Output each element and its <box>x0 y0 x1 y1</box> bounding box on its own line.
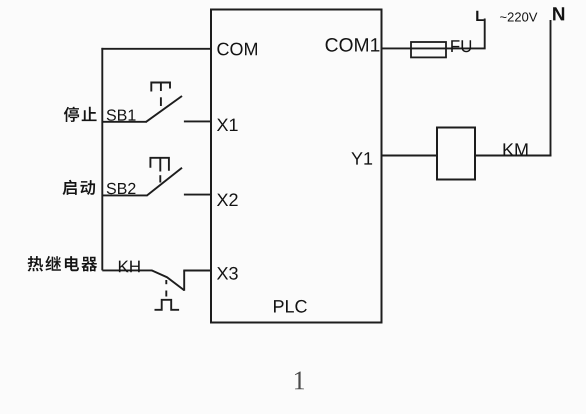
terminal label L <box>476 11 484 21</box>
pushbutton SB2 (start) blade <box>147 168 182 196</box>
terminal label Y1 <box>351 152 372 164</box>
label 停止 (stop) char 1 <box>64 107 79 122</box>
wire: SB2 right contact to X2 <box>184 194 212 196</box>
thermal relay KH heater element <box>155 300 180 310</box>
label 启动 (start) char 2 <box>80 180 95 195</box>
thermal relay KH contact step <box>183 271 185 291</box>
wire: KM coil to N rail <box>475 155 551 157</box>
terminal label COM1 <box>326 38 380 52</box>
label SB1 <box>107 109 136 120</box>
terminal label COM <box>217 43 257 56</box>
wire: bus top to COM terminal <box>101 48 211 50</box>
wire: bus to SB1 left lead <box>102 121 146 123</box>
pushbutton SB2 actuator cap <box>150 158 169 171</box>
terminal label X3 <box>217 267 238 280</box>
thermal relay KH actuator stem dash 2 <box>165 291 167 297</box>
pushbutton SB1 actuator cap <box>151 83 170 92</box>
pushbutton SB1 (stop) blade <box>146 96 182 122</box>
label ~220V <box>500 12 537 21</box>
wire: COM1 through fuse FU to L terminal <box>382 19 485 49</box>
wire: Y1 output to KM coil <box>382 155 438 157</box>
pushbutton SB2 actuator stem <box>159 158 161 172</box>
label PLC <box>274 300 307 313</box>
pushbutton SB1 actuator stem dash <box>160 97 162 106</box>
wire: SB1 right contact to X1 <box>184 120 212 122</box>
fuse FU body <box>411 42 446 57</box>
label 热继电器 (thermal relay) char 3 <box>65 256 79 271</box>
contactor coil KM body <box>437 128 475 180</box>
terminal label X2 <box>217 193 238 206</box>
label 停止 (stop) char 2 <box>82 107 97 121</box>
terminal label X1 <box>217 119 238 131</box>
label 热继电器 (thermal relay) char 1 <box>28 256 44 271</box>
wire: left bus vertical (COM rail) <box>101 48 103 271</box>
label 热继电器 (thermal relay) char 2 <box>45 256 61 271</box>
wire: bus to KH left lead <box>102 269 152 271</box>
PLC controller box U1 <box>211 10 382 323</box>
label KM <box>504 143 528 155</box>
label FU <box>451 40 471 52</box>
wire: KH right lead to X3 <box>183 270 212 272</box>
label SB2 <box>107 183 136 194</box>
pushbutton SB2 actuator stem dash <box>159 175 161 182</box>
terminal label N <box>553 7 564 20</box>
label 启动 (start) char 1 <box>62 180 76 195</box>
wire: bus to SB2 left lead <box>102 194 147 196</box>
pushbutton SB1 actuator stem <box>160 83 162 92</box>
figure number 1 <box>295 372 304 390</box>
label 热继电器 (thermal relay) char 4 <box>81 257 97 272</box>
thermal relay KH actuator stem dash 1 <box>165 280 167 284</box>
wire: N supply rail <box>550 20 552 156</box>
label KH <box>119 261 140 273</box>
thermal relay KH contact blade <box>152 270 185 290</box>
